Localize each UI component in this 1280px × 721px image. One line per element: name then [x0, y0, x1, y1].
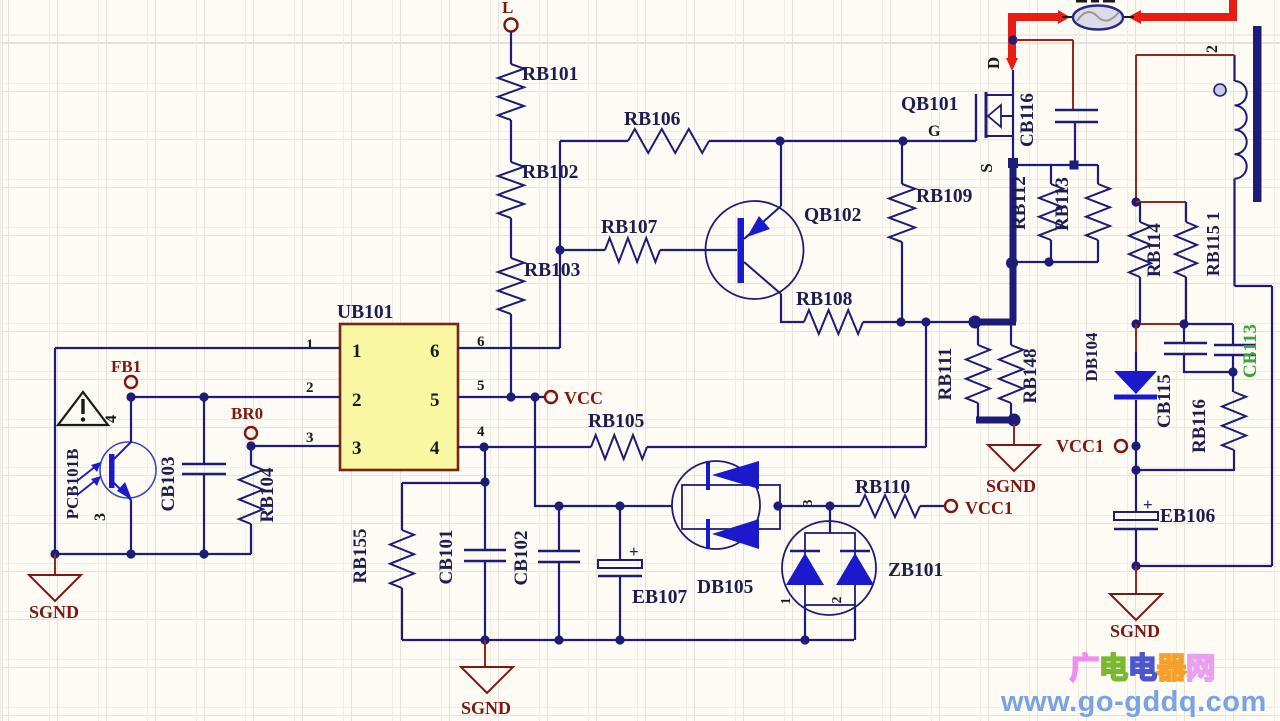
svg-text:1: 1: [779, 598, 794, 605]
watermark: [1000, 652, 1267, 718]
resistor RB112: [1009, 165, 1063, 262]
svg-text:3: 3: [92, 513, 109, 521]
junction: [126, 392, 135, 401]
junction: [775, 136, 784, 145]
wire: [1136, 565, 1272, 567]
wire: [535, 397, 672, 506]
svg-text:4: 4: [477, 424, 485, 440]
junction: [921, 317, 930, 326]
junction: [773, 501, 782, 510]
svg-text:1: 1: [306, 337, 314, 353]
svg-text:SGND: SGND: [29, 602, 79, 622]
warning triangle symbol: [58, 392, 108, 425]
wire: [709, 140, 976, 142]
svg-text:2: 2: [830, 597, 845, 604]
pin 2 label: [830, 597, 845, 604]
svg-text:BR0: BR0: [231, 404, 263, 423]
pin D label: [984, 57, 1003, 69]
wire pin2 net: [131, 396, 340, 398]
svg-text:RB110: RB110: [855, 477, 910, 498]
wire: [1136, 323, 1184, 325]
wire: [130, 397, 132, 554]
diode DB104: [1082, 324, 1157, 446]
resistor RB103: [498, 258, 581, 314]
pin 1 label: [779, 598, 794, 605]
pin 3 label: [801, 500, 816, 507]
svg-text:RB115 1: RB115 1: [1203, 212, 1223, 277]
wire: [510, 314, 512, 398]
node VCC1: [945, 498, 1013, 518]
svg-text:CB102: CB102: [511, 531, 532, 586]
ground SGND: [29, 554, 81, 622]
pin 2 label: [306, 380, 314, 396]
junction: [1008, 414, 1021, 427]
resistor RB113: [1052, 165, 1110, 262]
svg-text:1: 1: [352, 341, 362, 362]
junction: [554, 501, 563, 510]
svg-text:4: 4: [103, 415, 120, 423]
net label RB115 1: [1203, 212, 1223, 277]
svg-text:EB107: EB107: [632, 587, 688, 608]
svg-text:2: 2: [306, 380, 314, 396]
svg-text:2: 2: [352, 390, 362, 411]
junction: [896, 317, 905, 326]
diode ZB101 (dual zener): [782, 506, 943, 615]
capacitor EB106: [1114, 470, 1216, 566]
wire thick red AC line: [1006, 0, 1233, 71]
capacitor CB101: [436, 447, 506, 640]
ground SGND: [461, 640, 513, 718]
junction: [800, 635, 809, 644]
junction: [479, 442, 488, 451]
opto-transistor PCB101B: [63, 442, 156, 519]
wire pin3 net: [251, 445, 340, 447]
svg-text:RB102: RB102: [522, 162, 578, 183]
wire: [1062, 16, 1134, 18]
junction: [126, 549, 135, 558]
svg-text:RB116: RB116: [1189, 399, 1210, 453]
svg-text:RB103: RB103: [524, 260, 581, 281]
svg-text:5: 5: [477, 378, 485, 394]
capacitor EB107: [598, 506, 688, 640]
pin 5 label: [477, 378, 485, 394]
capacitor CB103: [158, 397, 226, 554]
pin S label: [977, 163, 996, 172]
svg-text:VCC: VCC: [564, 388, 603, 408]
capacitor CB116: [1017, 93, 1098, 163]
junction: [825, 501, 834, 510]
svg-text:RB101: RB101: [522, 64, 578, 85]
svg-text:3: 3: [801, 500, 816, 507]
svg-text:EB106: EB106: [1160, 506, 1216, 527]
junction: [1131, 465, 1140, 474]
pin 3 label: [92, 513, 109, 521]
svg-text:RB111: RB111: [935, 348, 956, 401]
wire RB106 net: [560, 140, 628, 142]
junction: [615, 635, 624, 644]
junction: [1008, 158, 1018, 168]
pin 3 label: [306, 430, 314, 446]
junction: [480, 477, 489, 486]
capacitor CB113: [1214, 324, 1261, 378]
node VCC1: [1056, 436, 1127, 456]
svg-text:L: L: [502, 0, 513, 17]
junction: [615, 501, 624, 510]
wire: [1016, 40, 1073, 110]
svg-text:ZB101: ZB101: [888, 560, 943, 581]
junction: [246, 441, 255, 450]
svg-text:CB113: CB113: [1240, 324, 1261, 378]
junction: [506, 392, 515, 401]
pin 4 label: [477, 424, 485, 440]
junction: [199, 549, 208, 558]
junction: [1179, 319, 1188, 328]
svg-text:QB101: QB101: [901, 94, 958, 115]
wire: [510, 218, 512, 258]
svg-text:G: G: [928, 123, 941, 140]
resistor RB108: [796, 289, 969, 334]
resistor RB148: [999, 322, 1041, 417]
svg-text:VCC1: VCC1: [1056, 436, 1104, 456]
transformer core: [1253, 26, 1262, 202]
resistor RB115v: [1175, 202, 1197, 324]
svg-text:SGND: SGND: [461, 698, 511, 718]
svg-text:RB148: RB148: [1020, 349, 1041, 404]
pin 2 label: [1204, 45, 1221, 53]
svg-text:6: 6: [430, 341, 440, 362]
svg-text:5: 5: [430, 390, 440, 411]
svg-text:RB113: RB113: [1052, 177, 1073, 231]
junction: [1070, 161, 1079, 170]
svg-text:广电电器网: 广电电器网: [1070, 652, 1215, 685]
resistor RB104: [239, 446, 278, 554]
node FB1: [111, 357, 141, 388]
ground SGND: [986, 424, 1040, 496]
junction: [554, 635, 563, 644]
junction: [1044, 257, 1053, 266]
node BR0: [231, 404, 263, 439]
wire winding1 net: [1235, 286, 1273, 566]
junction: [480, 635, 489, 644]
wire: [1135, 446, 1137, 470]
svg-text:RB155: RB155: [350, 529, 371, 584]
resistor RB102: [498, 162, 578, 218]
junction: [969, 316, 982, 329]
wire: [1136, 55, 1235, 202]
fuse LB101: [1073, 0, 1123, 30]
svg-text:FB1: FB1: [111, 357, 141, 376]
svg-text:RB104: RB104: [257, 467, 278, 522]
resistor RB105: [588, 411, 926, 459]
wire thick bus: [1010, 163, 1017, 322]
resistor RB155: [350, 483, 485, 640]
wire: [510, 120, 512, 162]
svg-text:3: 3: [352, 438, 362, 459]
wire: [510, 31, 512, 64]
wire pin6 net: [458, 141, 560, 348]
pin 6 label: [477, 334, 485, 350]
svg-text:CB103: CB103: [158, 457, 179, 512]
wire: [805, 605, 855, 640]
svg-text:QB102: QB102: [804, 205, 861, 226]
junction: [1131, 319, 1140, 328]
wire: [1012, 261, 1098, 263]
svg-text:www.go-gddq.com: www.go-gddq.com: [1000, 686, 1267, 718]
svg-text:+: +: [1143, 495, 1153, 514]
wire ground bus left: [55, 553, 251, 555]
svg-text:RB107: RB107: [601, 217, 658, 238]
svg-text:4: 4: [430, 438, 440, 459]
wire thick bus: [976, 417, 1016, 424]
svg-text:DB105: DB105: [697, 577, 754, 598]
svg-text:CB115: CB115: [1154, 374, 1175, 428]
node L (AC line terminal): [502, 0, 518, 32]
junction: [530, 392, 539, 401]
resistor RB114: [1129, 202, 1165, 324]
resistor RB111: [935, 322, 990, 417]
wire: [780, 141, 782, 206]
junction: [898, 136, 907, 145]
node VCC: [545, 388, 603, 408]
resistor RB110: [855, 477, 945, 517]
svg-text:UB101: UB101: [337, 302, 393, 323]
junction: [1131, 197, 1140, 206]
resistor RB101: [498, 64, 578, 120]
svg-text:SGND: SGND: [986, 476, 1036, 496]
diode DB105: [672, 461, 780, 598]
pin 4 label: [103, 415, 120, 423]
junction: [1228, 367, 1237, 376]
svg-text:RB105: RB105: [588, 411, 645, 432]
wire thick bus: [969, 319, 1016, 326]
wire: [1136, 201, 1186, 203]
svg-text:SGND: SGND: [1110, 621, 1160, 641]
junction: [1131, 441, 1140, 450]
junction: [1131, 561, 1140, 570]
wire pin1 net: [55, 348, 340, 554]
junction: [199, 392, 208, 401]
svg-text:DB104: DB104: [1082, 332, 1101, 382]
junction: [555, 245, 564, 254]
capacitor CB102: [511, 506, 580, 640]
junction: [1006, 257, 1018, 269]
wire pin5 net: [458, 396, 544, 398]
wire: [1136, 469, 1235, 471]
wire: [1184, 323, 1233, 325]
wire pin4 net: [458, 446, 591, 448]
pin 1 label: [306, 337, 314, 353]
svg-text:S: S: [977, 163, 996, 172]
svg-text:RB114: RB114: [1144, 223, 1165, 277]
svg-text:CB101: CB101: [436, 530, 457, 585]
svg-text:RB112: RB112: [1009, 176, 1030, 230]
transistor QB102: [706, 201, 862, 299]
svg-text:+: +: [629, 542, 639, 561]
transistor QB101 (MOSFET): [901, 70, 1013, 163]
wire: [1012, 164, 1098, 166]
svg-text:CB116: CB116: [1017, 93, 1038, 147]
resistor RB109: [889, 141, 973, 322]
wire: [780, 505, 860, 507]
svg-text:PCB101B: PCB101B: [63, 449, 82, 520]
op-amp U1 IC UB101: [337, 302, 458, 470]
resistor RB107: [560, 217, 737, 262]
svg-text:D: D: [984, 57, 1003, 69]
wire RB105 right net: [925, 322, 927, 447]
svg-text:3: 3: [306, 430, 314, 446]
resistor RB116: [1189, 372, 1246, 470]
junction: [50, 549, 59, 558]
svg-text:RB108: RB108: [796, 289, 853, 310]
wire: [781, 294, 804, 322]
wire ground bus center: [402, 639, 854, 641]
resistor RB106: [624, 109, 709, 153]
svg-text:2: 2: [1204, 45, 1221, 53]
svg-text:RB109: RB109: [916, 186, 973, 207]
ground SGND: [1110, 566, 1162, 641]
inductor winding 2: [1214, 55, 1247, 286]
junction: [1008, 35, 1017, 44]
capacitor CB115: [1154, 324, 1233, 428]
svg-text:VCC1: VCC1: [965, 498, 1013, 518]
svg-text:RB106: RB106: [624, 109, 681, 130]
